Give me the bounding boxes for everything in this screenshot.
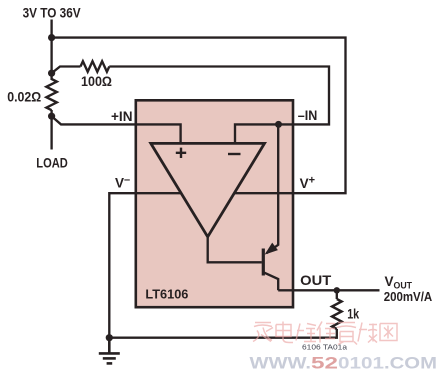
svg-text:LT6106: LT6106: [145, 286, 188, 301]
resistor R2 0.02ohm zigzag: [46, 79, 56, 110]
junction dot 100ohm tap: [48, 70, 55, 77]
ground symbol: [99, 338, 120, 364]
wire V- rail segment to ground: [109, 193, 181, 338]
svg-text:OUT: OUT: [300, 273, 332, 288]
svg-text:6106 TA01a: 6106 TA01a: [302, 344, 347, 351]
wire 100ohm lead from tap: [52, 67, 81, 74]
svg-text:52: 52: [311, 353, 338, 372]
wire supply vertical top: [50, 20, 52, 81]
wire top rail to V+ drop and V+ pin segment: [52, 38, 346, 194]
resistor R3 1k zigzag: [332, 299, 342, 329]
watermark char 4: [317, 322, 335, 343]
svg-text:100Ω: 100Ω: [81, 74, 112, 89]
junction dot supply/top rail: [48, 34, 55, 41]
op-amp U1 triangle: [151, 143, 265, 236]
watermark char 7: [380, 324, 397, 341]
svg-text:0.02Ω: 0.02Ω: [7, 90, 41, 105]
resistor R1 100ohm zigzag: [81, 61, 110, 71]
svg-text:WWW.: WWW.: [250, 353, 312, 372]
svg-text:LOAD: LOAD: [36, 156, 68, 171]
wire OUT: [278, 289, 379, 291]
wire 1k bottom to ground rail: [109, 329, 336, 338]
junction dot -IN node: [275, 121, 282, 128]
svg-text:V+: V+: [300, 175, 315, 192]
svg-text:3V TO 36V: 3V TO 36V: [23, 6, 81, 21]
watermark www.520101.com: [250, 353, 438, 372]
watermark char 5: [337, 323, 357, 345]
svg-text:+IN: +IN: [111, 109, 133, 124]
watermark char 2: [276, 322, 293, 343]
watermark char 6: [358, 323, 377, 343]
arrowhead emitter (PNP): [265, 243, 278, 255]
op-amp minus input symbol: [228, 153, 241, 155]
junction dot OUT node: [334, 287, 340, 293]
svg-text:1k: 1k: [347, 306, 359, 321]
junction dot +IN tap: [48, 113, 55, 120]
wire 100ohm to -IN pin: [109, 67, 329, 145]
watermark char 3: [296, 324, 316, 342]
junction dot ground node: [106, 334, 113, 341]
watermark char 1: [253, 323, 273, 342]
transistor Q1 base bar: [262, 249, 265, 276]
svg-text:0101: 0101: [338, 353, 384, 372]
svg-text:200mV/A: 200mV/A: [384, 289, 433, 304]
transistor Q1 collector to OUT: [264, 272, 279, 290]
IC body U1 LT6106: [136, 100, 293, 307]
svg-text:–IN: –IN: [298, 108, 318, 123]
resistor R3 1k leads: [336, 290, 338, 299]
wire +IN branch: [52, 116, 181, 144]
op-amp plus input symbol: [176, 148, 186, 158]
wire -IN node down to transistor emitter: [267, 124, 279, 253]
wire supply vertical lower / LOAD stub: [50, 110, 52, 150]
svg-text:.COM: .COM: [384, 353, 437, 372]
watermark chinese characters (stylized strokes): [253, 322, 397, 345]
svg-text:V–: V–: [115, 174, 130, 191]
wire op-amp output to base: [208, 237, 262, 262]
